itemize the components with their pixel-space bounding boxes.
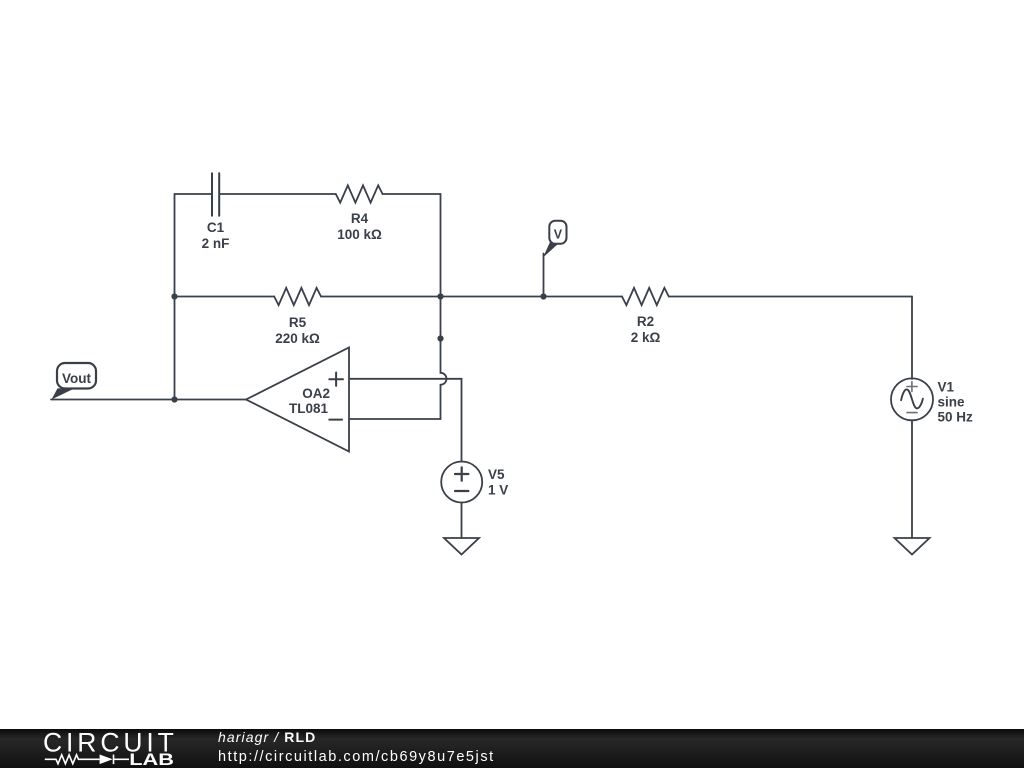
svg-text:220 kΩ: 220 kΩ	[275, 331, 320, 346]
junction node probe	[540, 293, 546, 299]
wire feedback vertical with hop	[441, 339, 447, 420]
svg-text:V: V	[554, 227, 563, 241]
logo resistor-diode	[45, 755, 129, 765]
label V5 value	[488, 467, 508, 498]
wire noninverting to V5	[461, 379, 463, 462]
label V1 value	[938, 380, 974, 425]
wire feedback vertical upper	[440, 297, 442, 339]
svg-text:OA2: OA2	[302, 386, 330, 401]
svg-text:R2: R2	[637, 314, 654, 329]
wire top to C1	[175, 193, 212, 195]
svg-text:V1: V1	[938, 380, 955, 395]
wire left vertical upper	[174, 194, 176, 297]
wire node to probe node	[441, 296, 544, 298]
wire C1 to R4	[220, 193, 336, 195]
svg-text:sine: sine	[938, 395, 966, 410]
svg-text:2 kΩ: 2 kΩ	[631, 330, 661, 345]
label R2 value	[631, 314, 661, 345]
label R4 value	[337, 211, 382, 242]
voltage source V5	[441, 462, 482, 503]
svg-text:R5: R5	[289, 315, 307, 330]
voltage source V1	[891, 378, 933, 420]
op-amp OA2	[246, 348, 349, 452]
node Vout flag	[52, 363, 97, 400]
wire V1 top	[911, 297, 913, 380]
wire probe node to R2	[544, 296, 623, 298]
capacitor C1	[212, 173, 219, 216]
svg-text:2 nF: 2 nF	[202, 236, 230, 251]
wire V5 to ground	[461, 503, 463, 539]
logo CIRCUIT	[43, 727, 178, 768]
wire left vertical lower	[174, 297, 176, 400]
wire R2 to V1 corner	[669, 296, 912, 298]
svg-text:100 kΩ: 100 kΩ	[337, 227, 382, 242]
label C1 value	[202, 220, 230, 251]
wire inverting input	[349, 418, 441, 420]
ground V1	[895, 538, 930, 555]
wire V1 bottom	[911, 420, 913, 538]
wire probe tail	[543, 254, 545, 297]
svg-text:1 V: 1 V	[488, 483, 508, 498]
footer bar	[0, 729, 1024, 768]
junction node output	[171, 396, 177, 402]
svg-text:C1: C1	[207, 220, 225, 235]
svg-text:Vout: Vout	[62, 371, 91, 386]
wire R5 to node	[321, 296, 441, 298]
footer url text	[218, 750, 495, 764]
wire right vertical	[440, 194, 442, 297]
wire R4 to corner	[383, 193, 441, 195]
resistor R4	[336, 185, 383, 202]
svg-text:50 Hz: 50 Hz	[938, 410, 974, 425]
resistor R2	[622, 288, 669, 305]
resistor R5	[274, 288, 321, 305]
wire output	[51, 399, 246, 401]
wire middle left	[175, 296, 275, 298]
footer title text	[218, 730, 316, 744]
ground V5	[444, 538, 479, 555]
svg-text:V5: V5	[488, 467, 505, 482]
label OA2	[289, 386, 330, 416]
label R5 value	[275, 315, 320, 346]
probe V flag	[543, 221, 567, 258]
wire noninverting input	[349, 378, 462, 380]
junction node feedback top	[437, 293, 443, 299]
svg-text:LAB: LAB	[129, 751, 174, 768]
svg-text:R4: R4	[351, 211, 369, 226]
junction node middle-left	[171, 293, 177, 299]
svg-text:TL081: TL081	[289, 401, 329, 416]
junction node feedback mid	[437, 335, 443, 341]
